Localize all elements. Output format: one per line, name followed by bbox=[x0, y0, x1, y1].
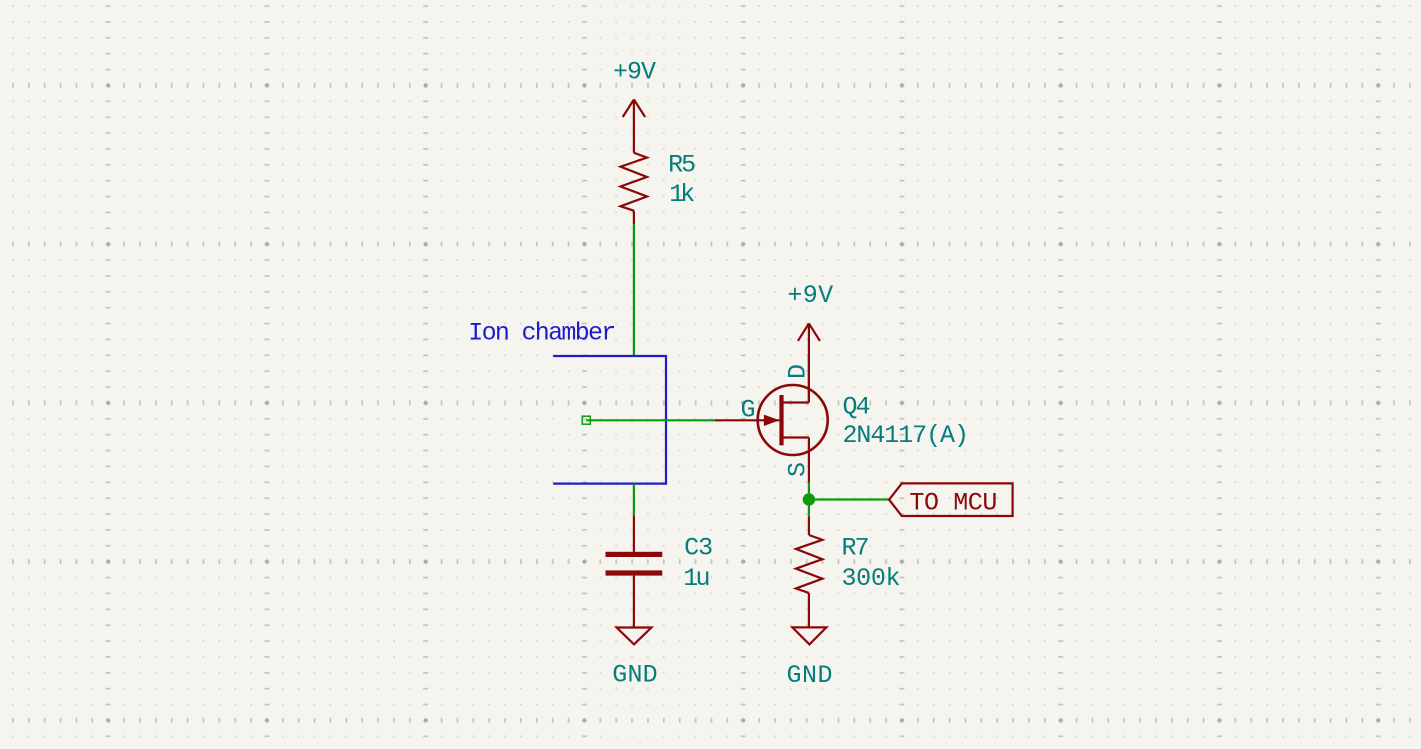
wire source to junction bbox=[808, 483, 810, 517]
svg-text:G: G bbox=[741, 396, 756, 425]
svg-text:1u: 1u bbox=[683, 564, 710, 593]
svg-text:R5: R5 bbox=[668, 150, 696, 179]
svg-text:Q4: Q4 bbox=[843, 392, 871, 421]
svg-text:C3: C3 bbox=[684, 534, 713, 563]
ground (below R7) bbox=[792, 627, 826, 644]
svg-text:+9V: +9V bbox=[613, 57, 656, 86]
ground (below C3) bbox=[617, 628, 652, 645]
power +9V symbol (above Q4) bbox=[798, 323, 820, 402]
svg-text:2N4117(A): 2N4117(A) bbox=[843, 421, 970, 450]
transistor Q4 bbox=[715, 355, 828, 483]
ion chamber outline bbox=[553, 356, 666, 484]
wire junction to global label bbox=[809, 498, 889, 500]
svg-text:GND: GND bbox=[787, 661, 833, 690]
svg-text:TO MCU: TO MCU bbox=[909, 488, 997, 517]
capacitor C3 bbox=[606, 515, 663, 627]
svg-text:GND: GND bbox=[612, 661, 658, 690]
wire R5 to ion chamber bbox=[633, 224, 635, 356]
svg-text:S: S bbox=[783, 462, 812, 477]
global label TO MCU bbox=[889, 483, 1013, 517]
svg-text:R7: R7 bbox=[842, 534, 870, 563]
svg-text:Ion chamber: Ion chamber bbox=[468, 319, 616, 348]
resistor R5 bbox=[621, 153, 648, 224]
wire-end square bbox=[582, 416, 590, 424]
wire chamber to gate bbox=[586, 419, 715, 421]
resistor R7 bbox=[796, 516, 823, 627]
svg-text:1k: 1k bbox=[669, 180, 695, 209]
junction bbox=[803, 493, 815, 505]
svg-text:+9V: +9V bbox=[787, 281, 833, 310]
wire chamber to C3 bbox=[633, 484, 635, 516]
power +9V symbol (above R5) bbox=[623, 100, 645, 153]
svg-text:300k: 300k bbox=[842, 564, 901, 593]
